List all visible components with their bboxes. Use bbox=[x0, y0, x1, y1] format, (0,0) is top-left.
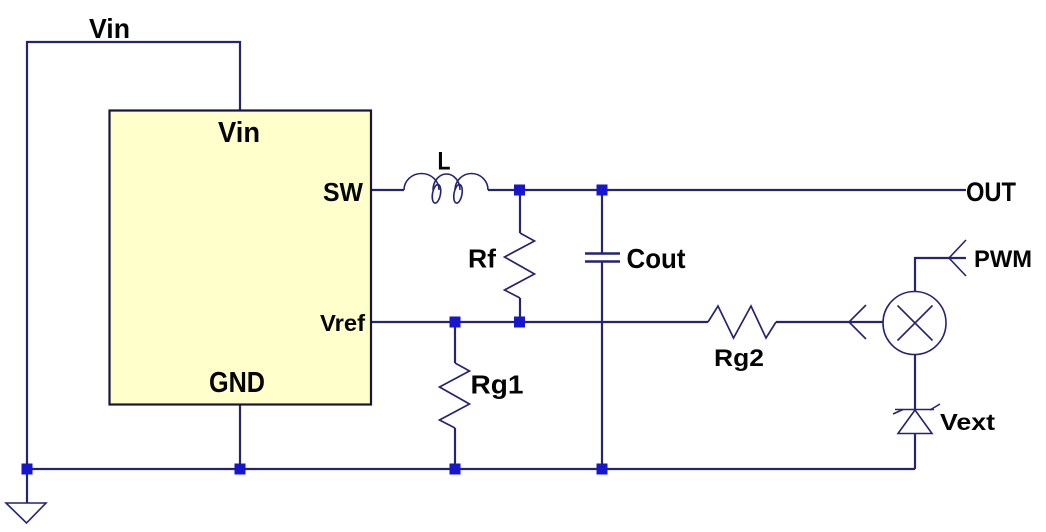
label net PWM bbox=[974, 246, 1032, 273]
wire Rf bottom bbox=[519, 298, 521, 322]
label pin GND bbox=[209, 367, 265, 399]
label resistor Rg1 bbox=[471, 372, 524, 400]
svg-text:Rf: Rf bbox=[468, 244, 496, 274]
wire Vin feed (left rail up, across top, down to IC Vin pin) bbox=[27, 42, 240, 469]
wire SW pin to inductor bbox=[371, 189, 404, 191]
inductor L bbox=[404, 174, 488, 204]
wire multiplier to zener bbox=[914, 355, 916, 410]
label net OUT bbox=[966, 177, 1016, 207]
node rail/GND junction bbox=[235, 464, 246, 475]
wire Rg1 bottom bbox=[454, 428, 456, 469]
wire zener to rail bbox=[914, 434, 916, 469]
node OUT/Cout junction bbox=[597, 185, 608, 196]
zener diode Vext bbox=[893, 404, 940, 434]
node rail/Rg1 junction bbox=[450, 464, 461, 475]
svg-text:GND: GND bbox=[209, 367, 265, 399]
label capacitor Cout bbox=[627, 243, 686, 274]
svg-text:SW: SW bbox=[323, 177, 363, 207]
svg-text:OUT: OUT bbox=[966, 177, 1016, 207]
label resistor Rf bbox=[468, 244, 496, 274]
svg-text:Vext: Vext bbox=[940, 409, 995, 435]
node SW/Rf junction bbox=[514, 185, 525, 196]
svg-text:Cout: Cout bbox=[627, 243, 686, 274]
arrow into multiplier from Rg2 bbox=[849, 305, 866, 339]
resistor Rg1 bbox=[440, 363, 470, 428]
resistor Rg2 bbox=[708, 306, 776, 338]
node Vref/Rg1 junction bbox=[450, 317, 461, 328]
capacitor Cout bbox=[585, 254, 620, 262]
label resistor Rg2 bbox=[714, 345, 764, 372]
label pin Vref bbox=[320, 310, 365, 336]
wire Rg2 to multiplier bbox=[776, 321, 884, 323]
resistor Rf bbox=[505, 233, 535, 298]
svg-text:Vin: Vin bbox=[89, 13, 130, 44]
label pin SW bbox=[323, 177, 363, 207]
wire PWM stub bbox=[915, 258, 966, 292]
wire Rg1 top bbox=[454, 322, 456, 363]
label net Vin bbox=[89, 13, 130, 44]
node rail/left junction bbox=[22, 464, 33, 475]
ground bbox=[6, 503, 46, 523]
multiplier U1 bbox=[883, 292, 946, 355]
wire bottom ground rail bbox=[27, 468, 915, 470]
svg-text:PWM: PWM bbox=[974, 246, 1032, 273]
node Vref/Rf junction bbox=[514, 317, 525, 328]
svg-text:Rg1: Rg1 bbox=[471, 372, 524, 400]
node rail/Cout junction bbox=[597, 464, 608, 475]
svg-text:Vin: Vin bbox=[218, 117, 260, 149]
svg-text:L: L bbox=[438, 148, 451, 176]
wire GND pin to rail bbox=[239, 404, 241, 469]
arrow PWM input bbox=[949, 240, 966, 276]
svg-text:Rg2: Rg2 bbox=[714, 345, 764, 372]
wire Cout vertical upper bbox=[601, 190, 603, 253]
svg-text:Vref: Vref bbox=[320, 310, 365, 336]
wire Cout vertical lower bbox=[601, 262, 603, 469]
label net Vext bbox=[940, 409, 995, 435]
wire inductor to OUT bbox=[488, 189, 966, 191]
label inductor L bbox=[438, 148, 451, 176]
wire Rf top bbox=[519, 190, 521, 233]
IC block bbox=[110, 111, 372, 405]
label pin Vin bbox=[218, 117, 260, 149]
wire Vref pin to Rg2 bbox=[371, 321, 708, 323]
wire junction to ground bbox=[26, 469, 28, 503]
